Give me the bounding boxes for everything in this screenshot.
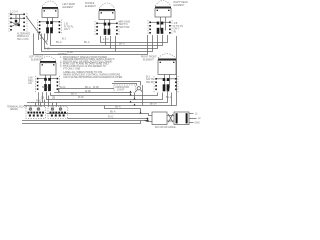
svg-text:W-1B: W-1B — [44, 49, 50, 51]
terminal block B — [48, 107, 68, 119]
lamp drop — [142, 85, 144, 106]
svg-text:W-18: W-18 — [78, 97, 84, 99]
right front plug connector — [154, 76, 178, 93]
left rear plug connector — [38, 20, 62, 35]
center plug connector — [95, 21, 119, 36]
fuse block — [152, 112, 167, 125]
wire row 4 — [47, 92, 163, 99]
right rear plug connector — [148, 20, 172, 35]
svg-text:R-1C: R-1C — [60, 87, 66, 89]
svg-text:FIT ONLY ONE: FIT ONLY ONE — [63, 67, 80, 70]
bus wire 5 — [34, 34, 148, 55]
right front element — [158, 54, 176, 89]
alternate switch wiring box — [9, 10, 27, 32]
svg-text:BU-A: BU-A — [85, 86, 91, 89]
bus wire 1 — [101, 35, 168, 43]
svg-text:1 2 3: 1 2 3 — [103, 38, 109, 41]
wire row 6 — [24, 92, 177, 105]
svg-text:WIRING AT: WIRING AT — [17, 35, 29, 38]
wire row 1 — [59, 89, 115, 93]
svg-text:ELEMENT: ELEMENT — [143, 59, 154, 61]
svg-text:BU-A: BU-A — [115, 106, 121, 109]
terminal block A — [26, 107, 46, 119]
svg-text:GND: GND — [195, 123, 200, 125]
indicator light box — [114, 85, 142, 93]
svg-text:RIGHT FRONT: RIGHT FRONT — [141, 57, 157, 59]
bus wire 2 — [51, 34, 163, 46]
svg-text:BU-A: BU-A — [166, 96, 172, 99]
svg-text:LEFT REAR: LEFT REAR — [63, 3, 76, 6]
svg-text:(REAR): (REAR) — [10, 108, 18, 111]
wire row 3 — [51, 92, 158, 95]
wire row 5 — [27, 90, 168, 103]
svg-text:#16 OR #18 CABLE: #16 OR #18 CABLE — [155, 126, 176, 129]
svg-text:BU-A: BU-A — [110, 111, 116, 114]
svg-text:ELEMENT: ELEMENT — [85, 6, 96, 8]
junction arrows — [129, 91, 131, 93]
svg-text:1B: 1B — [41, 96, 44, 99]
svg-text:SW-1 CON: SW-1 CON — [17, 39, 29, 41]
svg-text:R-1C: R-1C — [36, 101, 42, 103]
bus wire 3 — [45, 34, 158, 49]
svg-text:ELEMENT: ELEMENT — [174, 5, 185, 7]
left rear element — [42, 1, 58, 31]
svg-text:W-1B: W-1B — [85, 91, 91, 93]
svg-text:GN: GN — [28, 82, 32, 85]
feed corners into indicator — [112, 82, 141, 86]
bus wire 4 — [42, 34, 153, 52]
svg-text:BU-A: BU-A — [119, 43, 125, 46]
svg-text:W-1B: W-1B — [93, 87, 99, 89]
svg-text:BU-A: BU-A — [84, 41, 90, 44]
svg-text:BK-14: BK-14 — [150, 104, 157, 106]
outlet block — [174, 112, 189, 125]
svg-text:LEFT FRONT: LEFT FRONT — [29, 57, 44, 59]
right-side long drop — [176, 36, 178, 106]
line into fuse block lower — [22, 119, 152, 124]
jog to fuse block — [105, 106, 141, 114]
svg-text:SW-PL: SW-PL — [146, 81, 154, 84]
svg-text:BU-A: BU-A — [56, 41, 62, 44]
svg-text:TERMINAL BLOCK: TERMINAL BLOCK — [7, 105, 27, 108]
left front plug connector — [36, 76, 60, 93]
svg-text:CAN CAUSE IMPROPER AND DANGERO: CAN CAUSE IMPROPER AND DANGEROUS OPER — [63, 76, 122, 79]
center element — [99, 3, 115, 33]
svg-text:ELEMENT: ELEMENT — [63, 7, 74, 9]
risers to indicator box — [131, 93, 135, 100]
svg-text:SW TOR: SW TOR — [120, 26, 130, 29]
svg-text:RIGHT REAR: RIGHT REAR — [174, 1, 188, 4]
leader line — [26, 16, 48, 45]
line into fuse block upper — [47, 114, 153, 116]
svg-text:R-1C: R-1C — [108, 117, 114, 119]
centre element drops — [106, 36, 116, 52]
svg-text:2B: 2B — [52, 96, 55, 99]
svg-text:B-1: B-1 — [62, 38, 67, 41]
wire row 2 — [55, 91, 132, 93]
left front element — [40, 56, 56, 89]
svg-text:GN Y: GN Y — [64, 28, 70, 31]
svg-text:BU-A: BU-A — [71, 93, 77, 96]
svg-text:W-1B: W-1B — [67, 52, 73, 54]
notes — [58, 53, 122, 79]
svg-text:1 2 3 4: 1 2 3 4 — [10, 10, 18, 13]
svg-text:BK-14: BK-14 — [42, 87, 49, 89]
svg-text:DOUBLE: DOUBLE — [85, 3, 95, 5]
svg-text:LIGHT: LIGHT — [117, 89, 125, 92]
right rear element — [155, 1, 171, 31]
connector stubs — [39, 34, 48, 41]
svg-text:1 2: 1 2 — [38, 37, 42, 40]
terminal block feeds — [31, 96, 61, 107]
svg-text:ALTERNATE: ALTERNATE — [17, 32, 31, 35]
cross link — [167, 114, 174, 122]
